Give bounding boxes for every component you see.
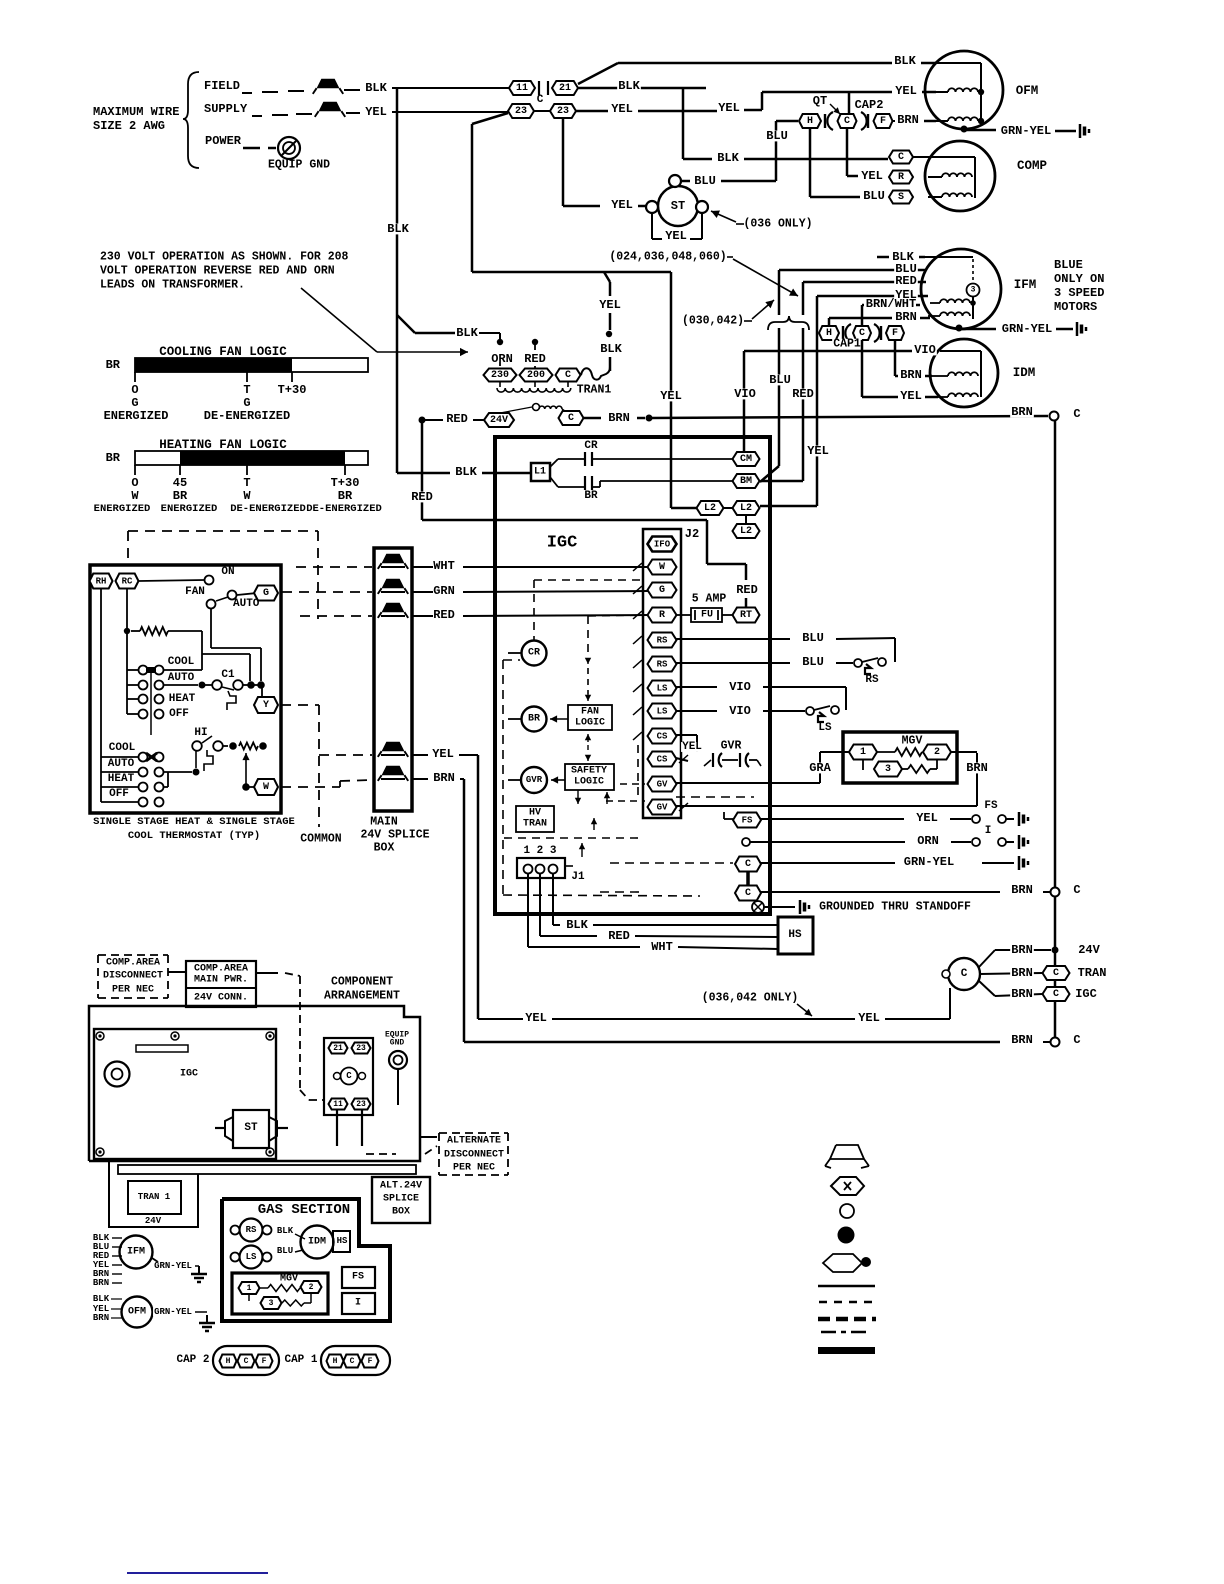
brace for 3-speed wires — [768, 316, 809, 330]
J2 terminal GV1 — [648, 777, 677, 792]
svg-text:SINGLE STAGE HEAT & SINGLE STA: SINGLE STAGE HEAT & SINGLE STAGE — [93, 816, 295, 828]
24V spoke — [995, 949, 1051, 951]
Y terminal — [254, 697, 278, 713]
BRN wire F to OFM — [893, 120, 895, 122]
svg-text:MAIN PWR.: MAIN PWR. — [194, 975, 248, 986]
svg-text:OFF: OFF — [169, 708, 189, 720]
J1 pin wires down — [527, 873, 529, 947]
ground chassis GRN-YEL — [1018, 856, 1021, 870]
switch I — [972, 838, 980, 846]
svg-text:BR: BR — [338, 489, 353, 503]
C terminal lower — [735, 886, 761, 901]
IGC plate — [94, 1029, 276, 1159]
svg-text:FU: FU — [701, 610, 713, 621]
CAP2 terminal H — [799, 114, 821, 128]
legend open circle — [840, 1204, 854, 1218]
svg-text:CS: CS — [657, 755, 668, 765]
svg-text:H: H — [333, 1357, 338, 1366]
svg-text:AUTO: AUTO — [108, 758, 135, 770]
wire C to BRN common — [761, 891, 1000, 893]
main 24V splice box — [374, 548, 412, 811]
svg-text:CM: CM — [740, 454, 752, 465]
svg-text:CR: CR — [528, 648, 540, 659]
OFM BLK top wire — [618, 62, 892, 65]
CAP2 tap from YEL line — [848, 92, 851, 115]
CAP1 terminal H — [819, 326, 839, 340]
svg-text:BRN: BRN — [1011, 966, 1033, 980]
alt 24V splice box — [372, 1177, 430, 1223]
svg-text:YEL: YEL — [611, 198, 633, 212]
svg-text:BLU: BLU — [802, 655, 824, 669]
J2 terminal CS2 — [648, 752, 677, 767]
TRAN1 primary winding — [497, 388, 571, 392]
svg-text:GRN-YEL: GRN-YEL — [904, 855, 954, 869]
svg-text:(030,042): (030,042) — [682, 315, 744, 328]
svg-text:VIO: VIO — [734, 387, 756, 401]
YEL riser to long run — [471, 124, 474, 272]
plate grommet — [105, 1062, 130, 1087]
cool select path — [201, 631, 203, 670]
COMP motor circle — [925, 141, 995, 211]
trunk branch to transformer — [397, 315, 415, 333]
svg-text:BRN: BRN — [1011, 1033, 1033, 1047]
ST component symbol — [233, 1110, 269, 1148]
IFM BLK stub and wire — [877, 256, 889, 259]
ST top terminal — [669, 175, 681, 187]
arrow fan logic to BR — [550, 718, 568, 720]
L2 terminal mid — [733, 501, 760, 515]
CAP2 terminal C — [838, 114, 857, 128]
svg-text:F: F — [880, 116, 886, 127]
wire WHT J1 to HS — [528, 946, 640, 948]
svg-text:DE-ENERGIZED: DE-ENERGIZED — [204, 409, 290, 423]
VIO wire to IDM — [744, 350, 912, 353]
svg-text:BLK: BLK — [894, 54, 916, 68]
ground chassis IFM — [1076, 322, 1079, 336]
FL fuse link — [581, 367, 610, 380]
svg-text:C: C — [1073, 1033, 1080, 1047]
J2 terminal RS2 — [648, 657, 677, 672]
IFM YEL wire — [892, 295, 928, 298]
comp area main pwr box — [186, 961, 256, 1007]
svg-text:RH: RH — [96, 577, 107, 587]
svg-text:CAP1: CAP1 — [833, 338, 861, 351]
svg-text:BRN: BRN — [608, 411, 630, 425]
wire GRN splice to G — [413, 591, 433, 593]
IGC board outline — [495, 437, 770, 914]
CAP2 terminal F — [874, 114, 893, 128]
wire GV2 BRN from MGV — [676, 805, 977, 807]
dashed thermostat perimeter — [128, 530, 318, 532]
thermostat box — [90, 565, 281, 813]
tap 230 hexagon — [484, 369, 517, 382]
svg-text:T+30: T+30 — [331, 476, 360, 490]
ground chassis FS — [1018, 812, 1021, 826]
svg-text:IFM: IFM — [1014, 278, 1037, 292]
wire FS YEL to flame switch — [761, 818, 904, 820]
svg-text:H: H — [226, 1357, 231, 1366]
LS switch gas — [240, 1246, 263, 1269]
svg-text:GVR: GVR — [721, 740, 742, 753]
HV TRAN box — [516, 806, 554, 832]
J2 terminal LS1 — [648, 681, 677, 696]
J2 terminal CS1 — [648, 729, 677, 744]
BR relay circle — [522, 707, 547, 732]
svg-text:O: O — [131, 476, 138, 490]
svg-text:RC: RC — [122, 577, 133, 587]
svg-text:ORN: ORN — [491, 352, 513, 366]
W terminal — [254, 779, 278, 795]
svg-text:SPLICE: SPLICE — [383, 1194, 419, 1205]
svg-text:YEL: YEL — [525, 1011, 547, 1025]
wire LS1 VIO — [676, 686, 717, 688]
svg-text:CS: CS — [657, 732, 668, 742]
svg-text:(024,036,048,060): (024,036,048,060) — [609, 251, 726, 264]
COMP terminal C — [889, 151, 913, 164]
MGV pin 1 — [849, 745, 877, 760]
svg-text:DISCONNECT: DISCONNECT — [103, 971, 163, 982]
OFM coil lower — [948, 117, 978, 121]
callout line from note to transformer — [301, 288, 377, 352]
GVR relay circle — [521, 767, 547, 793]
svg-text:11: 11 — [516, 83, 528, 94]
svg-text:230 VOLT OPERATION AS SHOWN. F: 230 VOLT OPERATION AS SHOWN. FOR 208 — [100, 251, 349, 264]
svg-text:BLU: BLU — [802, 631, 824, 645]
legend dash-dot line — [821, 1331, 871, 1334]
svg-text:GRN: GRN — [433, 584, 455, 598]
svg-text:W: W — [263, 782, 269, 793]
BRN down to CAP1 H — [828, 318, 831, 327]
svg-text:ENERGIZED: ENERGIZED — [94, 503, 151, 515]
svg-text:WHT: WHT — [651, 940, 673, 954]
tap 200 hexagon — [520, 369, 553, 382]
arrow safety logic to GVR — [551, 779, 565, 781]
svg-text:YEL: YEL — [611, 102, 633, 116]
block terminals top — [329, 1043, 348, 1054]
BM terminal — [733, 474, 760, 488]
arrow safety down — [577, 790, 579, 804]
24V conduit dashed — [256, 972, 278, 974]
svg-text:H: H — [826, 328, 832, 339]
IFM BLK inside to bus — [925, 256, 973, 258]
svg-text:RED: RED — [433, 608, 455, 622]
RED vertical to BM — [802, 282, 805, 315]
dashed R row — [300, 615, 372, 617]
MGV gas pin 2 — [301, 1281, 322, 1293]
H down to COMP S — [809, 128, 812, 197]
OFM coil upper — [948, 88, 978, 92]
CAP1 label — [832, 339, 862, 349]
wire BLK field to terminal 11 — [392, 87, 509, 89]
C common terminal top — [1050, 412, 1059, 421]
svg-text:BRN/WHT: BRN/WHT — [866, 297, 916, 311]
wire nut supply — [319, 102, 342, 112]
svg-text:GVR: GVR — [526, 775, 543, 785]
BLU vertical to BM — [778, 270, 781, 315]
svg-text:BLK: BLK — [566, 918, 588, 932]
HS box gas — [333, 1231, 350, 1252]
svg-text:COOL THERMOSTAT (TYP): COOL THERMOSTAT (TYP) — [128, 830, 260, 842]
svg-text:YEL: YEL — [718, 101, 740, 115]
svg-text:YEL: YEL — [660, 389, 682, 403]
RED wire to 24V — [419, 417, 426, 424]
svg-text:BRN: BRN — [966, 761, 988, 775]
svg-text:24V CONN.: 24V CONN. — [194, 993, 248, 1004]
rollout switch RS — [854, 659, 862, 667]
RH vertical bus — [100, 589, 102, 802]
svg-text:F: F — [368, 1357, 373, 1366]
IFM coils — [940, 299, 970, 303]
svg-text:RS: RS — [865, 674, 879, 686]
anticipator resistor — [140, 627, 168, 635]
wire GRN-YEL to ground — [761, 862, 895, 864]
comp area disconnect dashed box — [98, 954, 168, 956]
svg-text:2: 2 — [309, 1283, 314, 1292]
svg-text:BLK: BLK — [455, 465, 477, 479]
svg-text:MGV: MGV — [280, 1274, 298, 1285]
svg-text:LS: LS — [818, 722, 832, 734]
IFM ground wire — [956, 325, 963, 332]
COMP coil R — [942, 173, 972, 177]
YEL vertical to L2 — [816, 296, 819, 506]
svg-text:GRN-YEL: GRN-YEL — [154, 1307, 192, 1317]
RC vertical bus — [126, 588, 128, 714]
svg-text:BOX: BOX — [392, 1207, 410, 1218]
OFM circle bottom — [122, 1297, 153, 1328]
svg-text:HEATING FAN LOGIC: HEATING FAN LOGIC — [159, 438, 287, 452]
stack2 heat jumper — [164, 786, 168, 788]
svg-text:I: I — [985, 825, 992, 837]
svg-text:GAS SECTION: GAS SECTION — [258, 1202, 350, 1218]
svg-text:TRAN 1: TRAN 1 — [138, 1192, 171, 1202]
svg-text:VIO: VIO — [729, 704, 751, 718]
svg-text:AUTO: AUTO — [168, 672, 195, 684]
svg-text:ARRANGEMENT: ARRANGEMENT — [324, 990, 400, 1003]
IFM speed tap circle 3 — [967, 284, 980, 297]
YEL riser to C splice — [949, 988, 951, 1019]
svg-text:45: 45 — [173, 476, 187, 490]
stack1 auto wire to C1 — [164, 684, 198, 686]
svg-text:RED: RED — [895, 274, 917, 288]
svg-text:COMPONENT: COMPONENT — [331, 976, 393, 989]
svg-text:FIELD: FIELD — [204, 79, 240, 93]
left BLK trunk vertical — [396, 88, 399, 473]
stack2 cool closed contact X — [146, 753, 157, 761]
MGV resistor 1-2 — [877, 751, 895, 753]
MGV gas resistor 1-2 — [260, 1287, 268, 1289]
alternate disconnect dashed box — [439, 1132, 508, 1134]
cooling bar ticks — [134, 372, 136, 382]
wire RED splice to R — [413, 615, 433, 617]
long YEL horizontal run — [472, 271, 671, 274]
svg-text:W: W — [659, 562, 665, 573]
dashed G row — [282, 591, 372, 593]
svg-text:C: C — [1053, 989, 1059, 1000]
BLU diagonal to BM — [760, 466, 779, 482]
svg-text:FS: FS — [984, 800, 998, 812]
svg-text:C: C — [745, 859, 751, 870]
flame switch FS — [972, 815, 980, 823]
J2 connector box — [643, 529, 681, 818]
stack1 cool wire — [164, 669, 202, 671]
grounded thru standoff symbol — [752, 901, 764, 913]
svg-text:GND: GND — [390, 1039, 405, 1048]
BRN/WHT down to CAP1 C — [861, 305, 864, 327]
wire nut field — [317, 79, 340, 89]
svg-text:W: W — [243, 489, 251, 503]
svg-text:RS: RS — [246, 1225, 257, 1235]
svg-text:1: 1 — [860, 747, 866, 758]
contact bars between 11 and 21 — [538, 81, 540, 95]
svg-text:FS: FS — [352, 1272, 364, 1283]
C1 output dots — [243, 684, 248, 686]
C splice circle — [948, 958, 980, 990]
svg-text:L2: L2 — [704, 503, 716, 514]
FS box gas — [342, 1267, 375, 1288]
svg-text:FS: FS — [742, 816, 753, 826]
svg-text:BLK: BLK — [618, 79, 640, 93]
svg-text:SUPPLY: SUPPLY — [204, 102, 248, 116]
cap bars CAP1 — [842, 326, 844, 340]
L2 terminal bottom — [733, 524, 760, 538]
OFM ground wire GRN-YEL — [961, 126, 968, 133]
svg-text:BRN: BRN — [1011, 405, 1033, 419]
blue footer line — [127, 1572, 268, 1574]
svg-text:C: C — [1073, 883, 1080, 897]
YEL 036-042 wire — [478, 1018, 523, 1020]
svg-text:2: 2 — [934, 747, 940, 758]
IFM BLU wire — [892, 269, 926, 272]
svg-text:Y: Y — [263, 700, 269, 711]
svg-text:HS: HS — [788, 929, 802, 941]
svg-text:TRAN: TRAN — [1078, 966, 1107, 980]
svg-text:ALT.24V: ALT.24V — [380, 1181, 422, 1192]
svg-text:200: 200 — [527, 370, 545, 381]
BRN common wire to C — [582, 417, 601, 420]
BLU wire from ST top — [681, 180, 690, 183]
IFM circle bottom — [120, 1236, 153, 1269]
arrow up near J1 — [581, 843, 583, 857]
svg-text:YEL: YEL — [900, 389, 922, 403]
svg-text:24V: 24V — [145, 1216, 162, 1226]
RED tap dot — [532, 339, 538, 345]
svg-text:BR: BR — [106, 358, 121, 372]
component enclosure outline — [89, 1006, 420, 1161]
wire from 21 up to OFM BLK line — [578, 63, 618, 84]
svg-text:BRN: BRN — [93, 1313, 109, 1323]
svg-text:FAN: FAN — [185, 586, 205, 598]
CAP1 F down to IDM BRN — [894, 340, 897, 376]
svg-text:G: G — [263, 588, 269, 599]
dashed Y row link — [281, 704, 319, 706]
gas section box — [222, 1199, 390, 1321]
dashed W row link — [281, 786, 340, 788]
legend heavy dashed line — [818, 1317, 876, 1322]
svg-text:BRN: BRN — [897, 113, 919, 127]
svg-text:COMP.AREA: COMP.AREA — [106, 958, 160, 969]
svg-text:DE-ENERGIZED: DE-ENERGIZED — [306, 503, 382, 515]
svg-text:ONLY ON: ONLY ON — [1054, 272, 1104, 286]
tran1 enclosure — [109, 1161, 198, 1227]
svg-text:LS: LS — [657, 707, 668, 717]
BRN drop from splice box — [412, 778, 428, 780]
block terminals bottom — [329, 1099, 348, 1110]
svg-text:YEL: YEL — [432, 747, 454, 761]
svg-text:EQUIP GND: EQUIP GND — [268, 159, 330, 172]
wire GV1 to MGV GRA — [676, 782, 820, 784]
IFM BRN wire — [920, 317, 930, 320]
diagonal from 23 down-left — [472, 113, 508, 124]
block wires down — [336, 1110, 338, 1146]
svg-text:CR: CR — [584, 440, 598, 452]
svg-text:LS: LS — [246, 1252, 257, 1262]
IGC spoke C hexagon — [1043, 987, 1070, 1001]
svg-text:ENERGIZED: ENERGIZED — [104, 409, 169, 423]
cap bars H-C — [824, 114, 826, 128]
wire to W — [246, 786, 255, 788]
svg-text:3: 3 — [269, 1299, 274, 1308]
svg-text:RED: RED — [608, 929, 630, 943]
svg-text:LS: LS — [657, 684, 668, 694]
CR relay circle — [522, 641, 547, 666]
svg-text:FAN: FAN — [581, 707, 599, 718]
svg-text:GRA: GRA — [809, 761, 831, 775]
MGV gas pin 1 — [239, 1282, 260, 1294]
IDM motor circle — [930, 339, 998, 407]
L1 fanout — [550, 459, 558, 467]
svg-text:C: C — [568, 413, 574, 424]
legend solid line — [818, 1285, 875, 1288]
svg-text:GV: GV — [657, 803, 668, 813]
svg-text:R: R — [898, 172, 904, 183]
svg-text:BRN: BRN — [1011, 883, 1033, 897]
IFM RED wire — [892, 281, 926, 284]
COMP internal bus — [974, 157, 976, 198]
C hexagon secondary — [559, 411, 584, 425]
svg-text:GRN-YEL: GRN-YEL — [1001, 124, 1051, 138]
svg-text:J1: J1 — [571, 871, 585, 883]
svg-text:3: 3 — [885, 764, 891, 775]
svg-text:MAIN: MAIN — [370, 816, 398, 829]
dashed control lines IGC — [534, 579, 641, 581]
svg-text:O: O — [131, 383, 138, 397]
svg-text:YEL: YEL — [895, 84, 917, 98]
svg-text:BOX: BOX — [374, 842, 395, 855]
svg-text:TRAN: TRAN — [523, 819, 547, 830]
svg-text:BLU: BLU — [769, 373, 791, 387]
svg-text:PER NEC: PER NEC — [112, 985, 154, 996]
svg-text:OFM: OFM — [128, 1307, 146, 1318]
wire RC to fan ON — [139, 580, 204, 581]
TRAN 1 box — [128, 1181, 181, 1214]
svg-text:23: 23 — [356, 1044, 366, 1053]
SAFETY LOGIC box — [565, 764, 614, 790]
svg-text:C: C — [537, 94, 544, 106]
svg-text:R: R — [659, 610, 665, 621]
svg-text:COMP: COMP — [1017, 159, 1047, 173]
svg-text:ST: ST — [671, 199, 685, 213]
RED riser to RT feed — [421, 420, 424, 520]
svg-text:G: G — [243, 396, 250, 410]
ST right terminal — [696, 201, 708, 213]
RS switch gas — [240, 1219, 263, 1242]
VIO vertical to CM — [743, 351, 746, 452]
J2 terminal G — [648, 583, 677, 598]
svg-text:ORN: ORN — [917, 834, 939, 848]
svg-text:C: C — [565, 370, 571, 381]
svg-text:BLK: BLK — [456, 326, 478, 340]
wire RED J1 to HS — [540, 935, 597, 937]
